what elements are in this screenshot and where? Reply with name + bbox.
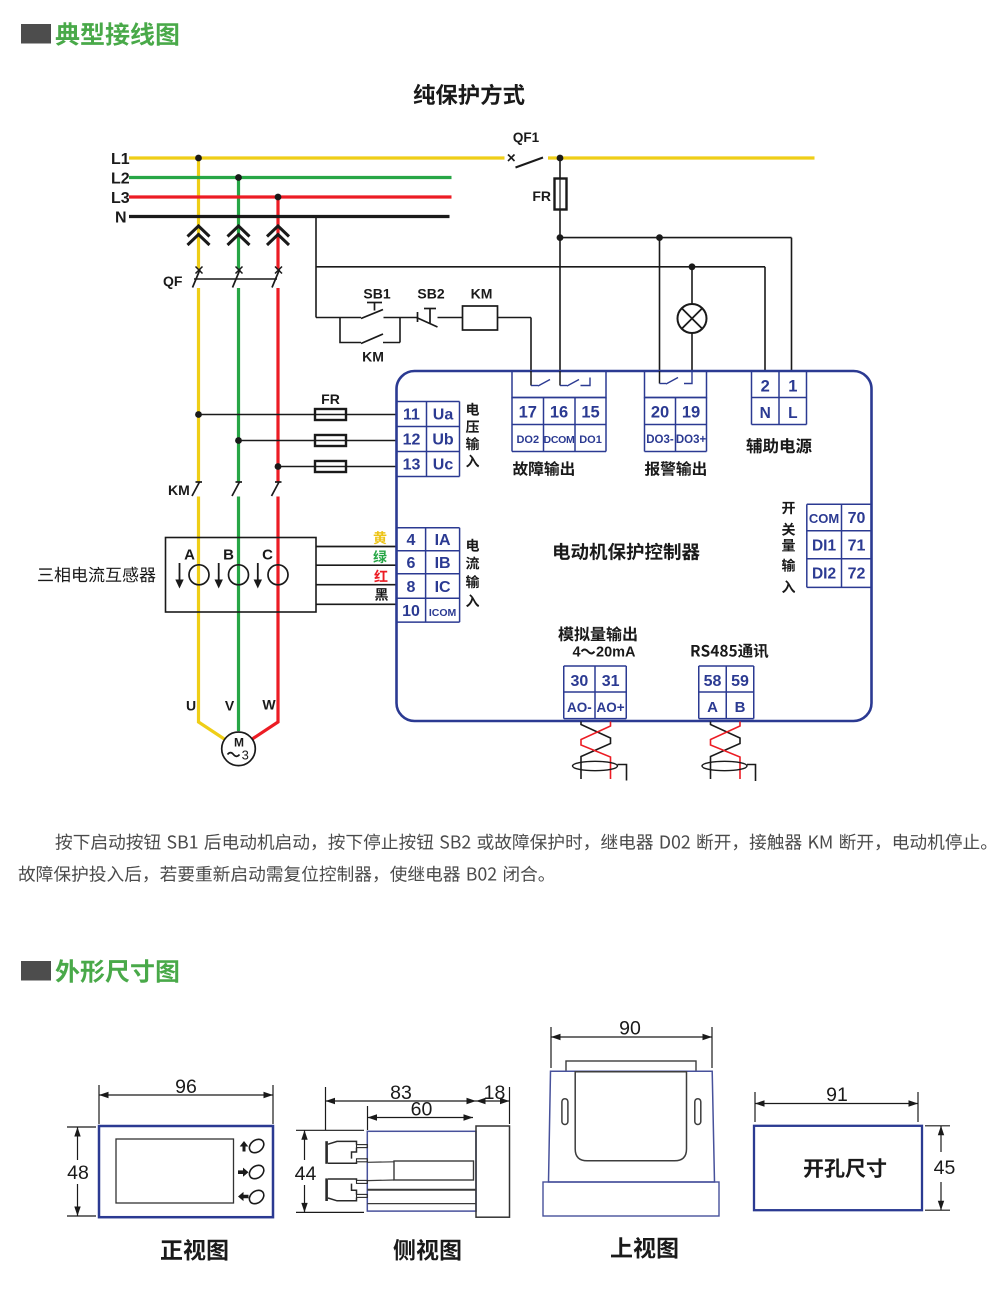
shield AO (573, 761, 627, 780)
svg-text:QF1: QF1 (513, 130, 540, 145)
svg-text:70: 70 (848, 510, 866, 527)
svg-text:KM: KM (362, 349, 384, 365)
svg-text:L2: L2 (111, 171, 130, 188)
side view body lines (367, 1190, 476, 1204)
svg-text:B: B (223, 547, 234, 564)
wire tap 12 (239, 440, 397, 442)
terminal block current 4-10 (397, 528, 460, 622)
terminal 6 IB text (407, 555, 451, 572)
wire FR down (559, 210, 561, 238)
svg-text:16: 16 (550, 404, 568, 422)
wire to terminal 1 (L) (791, 238, 793, 371)
controller box outline (397, 371, 872, 721)
svg-text:1: 1 (788, 378, 797, 396)
svg-text:IC: IC (435, 579, 451, 596)
twisted pair RS485 (711, 722, 741, 780)
svg-text:AO+: AO+ (597, 700, 625, 715)
side view board (367, 1161, 473, 1181)
label 开孔尺寸 (804, 1158, 886, 1178)
wire to fault relay mid (559, 238, 561, 371)
fuse FR element 11 (315, 409, 346, 420)
bus L3 (red) (129, 195, 452, 198)
controller title 电动机保护控制器 (554, 543, 700, 561)
svg-text:17: 17 (519, 404, 537, 422)
cutout dim 45 line (938, 1126, 944, 1210)
svg-text:83: 83 (390, 1082, 412, 1104)
section header square (21, 24, 51, 44)
paragraph line 1 (56, 834, 987, 851)
top view slot right (695, 1099, 701, 1125)
connector chevron 1 (188, 226, 210, 245)
svg-text:DCOM: DCOM (544, 434, 575, 446)
svg-text:96: 96 (175, 1076, 197, 1098)
wire L rail (560, 237, 792, 239)
label 报警输出 (645, 461, 706, 476)
cutout dim 91 witness (755, 1092, 918, 1122)
label 电压输入 (vertical) (466, 403, 480, 468)
front view dim 48 witness (67, 1127, 96, 1216)
wire N rail (316, 266, 765, 268)
svg-text:COM: COM (809, 511, 839, 526)
label 三相电流互感器 (38, 567, 155, 583)
label 故障输出 (513, 461, 574, 476)
wire yellow phase drop (199, 158, 227, 741)
svg-text:B: B (735, 699, 746, 716)
terminal block voltage 11-13 (397, 402, 460, 477)
svg-text:DO3+: DO3+ (676, 434, 707, 446)
svg-text:U: U (186, 698, 196, 714)
svg-text:DO2: DO2 (516, 434, 539, 446)
top view slot left (562, 1099, 568, 1125)
circuit breaker QF (3-pole) (193, 267, 283, 288)
svg-text:19: 19 (682, 404, 700, 422)
terminal 11 Ua text (403, 407, 453, 424)
svg-text:KM: KM (168, 482, 190, 498)
front view button 2 (247, 1162, 267, 1181)
svg-text:10: 10 (402, 603, 420, 620)
svg-text:DO3-: DO3- (646, 434, 674, 446)
junction dot tap 13 (275, 463, 282, 470)
junction dot QF1-FR (557, 155, 564, 162)
svg-text:C: C (262, 547, 273, 564)
wire lamp top (691, 267, 693, 304)
cutout dim 91 line (755, 1100, 918, 1106)
terminal block aux power 2/1 (752, 371, 807, 425)
svg-text:N: N (760, 405, 771, 422)
wire green phase drop (237, 178, 240, 732)
fuse FR top (555, 179, 567, 210)
connector chevron 3 (267, 226, 289, 245)
section header 2 square (21, 961, 51, 981)
junction dot L2 (235, 174, 242, 181)
side view clip bottom (325, 1178, 356, 1201)
svg-text:13: 13 (403, 457, 421, 474)
side view body (367, 1131, 476, 1211)
twisted pair AO (581, 722, 611, 780)
cutout dim 45 witness (925, 1126, 950, 1210)
CT primary circle C (268, 565, 288, 585)
section header text 典型接线图 (56, 22, 178, 46)
svg-text:V: V (225, 698, 235, 714)
side view dim 18 line (476, 1098, 510, 1104)
svg-text:30: 30 (571, 673, 589, 690)
side view dim 83 line (326, 1098, 477, 1104)
terminal 10 ICOM text (402, 603, 456, 620)
side view dim 18 witness (509, 1087, 511, 1124)
wire N drop (315, 217, 317, 318)
top view flange (543, 1182, 719, 1216)
wire red phase drop (250, 197, 278, 741)
junction dot L rail mid (656, 234, 663, 241)
svg-text:8: 8 (407, 579, 416, 596)
wire control rail start (316, 317, 361, 319)
label 侧视图 (393, 1239, 460, 1261)
svg-text:L3: L3 (111, 190, 130, 207)
svg-text:IA: IA (435, 532, 451, 549)
svg-text:QF: QF (163, 273, 183, 289)
junction dot lamp tap (689, 263, 696, 270)
svg-text:AO-: AO- (567, 700, 592, 715)
svg-text:59: 59 (731, 673, 749, 690)
wire tap 13 (278, 466, 397, 468)
front view dim 48 line (74, 1127, 80, 1216)
fault relay contacts (531, 371, 590, 386)
label 电流输入 (vertical) (466, 539, 479, 607)
terminal block RS485 58/59 (699, 666, 754, 719)
svg-text:2: 2 (761, 378, 770, 396)
wire SB1 to SB2 (384, 317, 418, 319)
wire CT IA (316, 546, 397, 548)
svg-text:DO1: DO1 (579, 434, 602, 446)
alarm relay compartment (645, 371, 707, 398)
top view dim 90 line (551, 1034, 712, 1040)
svg-text:SB1: SB1 (363, 286, 390, 302)
svg-text:91: 91 (826, 1084, 848, 1106)
svg-text:KM: KM (471, 286, 493, 302)
svg-text:DI2: DI2 (812, 566, 836, 583)
front view button 3 (247, 1187, 267, 1206)
terminal 8 IC text (407, 579, 451, 596)
wire tap 11 (199, 414, 397, 416)
wire to alarm relay left (659, 238, 661, 371)
wire KM coil to controller (498, 318, 532, 372)
aux contact KM (parallel) (340, 318, 400, 344)
front view dim 96 witness (99, 1085, 273, 1124)
front view display (116, 1139, 234, 1203)
svg-text:ICOM: ICOM (429, 607, 457, 619)
side view dim 44 line (301, 1130, 307, 1212)
CT arrow C (254, 563, 262, 589)
junction dot tap 11 (195, 411, 202, 418)
label 上视图 (611, 1237, 677, 1259)
svg-text:11: 11 (403, 407, 420, 424)
svg-text:DI1: DI1 (812, 538, 837, 555)
CT arrow A (175, 563, 183, 589)
label 模拟量输出 (558, 626, 636, 641)
contactor KM main contacts (192, 482, 282, 496)
svg-text:90: 90 (619, 1018, 641, 1040)
label 开关量输入 (vertical) (782, 502, 795, 593)
wire CT IB (316, 564, 397, 566)
svg-text:60: 60 (411, 1099, 433, 1121)
label 正视图 (161, 1239, 227, 1261)
svg-text:44: 44 (295, 1163, 317, 1185)
wire lamp bottom (691, 333, 693, 371)
svg-text:18: 18 (484, 1082, 506, 1104)
top view dim 90 witness (551, 1027, 712, 1068)
svg-text:W: W (262, 697, 276, 713)
top view inner (575, 1072, 686, 1161)
junction dot L rail left (557, 234, 564, 241)
svg-text:SB2: SB2 (417, 286, 444, 302)
terminal block AO 30/31 (564, 666, 627, 719)
wire color label 黑 (375, 588, 388, 601)
front view arrow right (238, 1168, 249, 1177)
bus L1 (yellow) (129, 156, 815, 159)
svg-text:48: 48 (67, 1162, 89, 1184)
label 4~20mA (572, 645, 636, 661)
svg-text:IB: IB (435, 555, 451, 572)
wire color label 绿 (373, 550, 387, 563)
terminal block alarm 20/19 (645, 398, 707, 452)
label 辅助电源 (746, 438, 811, 454)
svg-text:6: 6 (407, 555, 416, 572)
terminal block DI (807, 504, 872, 587)
svg-text:72: 72 (848, 566, 866, 583)
front view bezel (99, 1126, 273, 1217)
section header text 外形尺寸图 (56, 959, 179, 983)
junction dot L1 (195, 155, 202, 162)
terminal 12 Ub text (403, 432, 454, 449)
svg-text:Ua: Ua (433, 407, 454, 424)
bus L2 (green) (129, 176, 452, 179)
label RS485通讯 (691, 644, 768, 658)
pushbutton SB2 (NC) (417, 309, 438, 328)
side view dim 83 witness (326, 1087, 368, 1130)
svg-text:45: 45 (934, 1157, 956, 1179)
svg-text:58: 58 (704, 673, 722, 690)
CT arrow B (215, 563, 223, 589)
front view arrow left (238, 1192, 249, 1201)
svg-text:3: 3 (242, 748, 249, 763)
front view button 1 (247, 1136, 267, 1155)
paragraph line 2 (19, 866, 544, 883)
svg-text:Ub: Ub (432, 432, 454, 449)
diagram title 纯保护方式 (414, 84, 525, 105)
fault relay compartment (512, 371, 606, 398)
cutout rect (754, 1126, 922, 1210)
svg-text:31: 31 (602, 673, 620, 690)
side view pins bottom (357, 1180, 368, 1197)
side view bezel (476, 1126, 510, 1217)
front view arrow up (240, 1141, 249, 1152)
side view pins top (357, 1145, 368, 1162)
svg-text:L1: L1 (111, 151, 130, 168)
side view clip top (325, 1141, 356, 1164)
CT primary circle A (189, 565, 209, 585)
svg-text:FR: FR (532, 188, 551, 204)
connector chevron 2 (228, 226, 250, 245)
CT box (166, 538, 317, 613)
wire to terminal 2 (N) (764, 267, 766, 371)
front view dim 96 line (99, 1092, 273, 1098)
top view body (549, 1071, 715, 1182)
fuse FR element 13 (315, 461, 346, 472)
wire CT IC (316, 584, 397, 586)
wire CT ICOM (316, 603, 397, 605)
terminal 4 IA text (407, 532, 451, 549)
svg-text:4: 4 (407, 532, 416, 549)
alarm relay contact (660, 371, 693, 384)
wire L1 to FR (559, 158, 561, 178)
motor M (222, 732, 256, 766)
bus N (black) (129, 215, 450, 218)
svg-text:A: A (184, 547, 195, 564)
CT primary circle B (229, 565, 249, 585)
svg-text:L: L (788, 405, 797, 422)
side view dim 60 line (368, 1114, 474, 1120)
pushbutton SB1 (NO) (361, 303, 383, 319)
wire color label 黄 (374, 531, 387, 544)
svg-text:Uc: Uc (433, 457, 454, 474)
contactor coil KM (463, 306, 498, 330)
switch QF1 (508, 155, 543, 168)
shield RS485 (702, 761, 756, 781)
svg-text:20: 20 (651, 404, 669, 422)
svg-text:N: N (115, 210, 127, 227)
junction dot L3 (275, 194, 282, 201)
svg-text:12: 12 (403, 432, 421, 449)
fuse FR element 12 (315, 435, 346, 446)
svg-text:FR: FR (321, 391, 340, 407)
wire color label 红 (374, 570, 387, 583)
wire SB2 to KM coil (438, 317, 463, 319)
top view top rect (566, 1061, 696, 1071)
svg-text:20mA: 20mA (596, 645, 636, 661)
side view dim 44 witness (296, 1130, 364, 1212)
terminal block fault 17/16/15 (512, 398, 606, 452)
junction dot tap 12 (235, 437, 242, 444)
indicator lamp (678, 304, 707, 333)
terminal 13 Uc text (403, 457, 454, 474)
svg-text:A: A (707, 699, 718, 716)
svg-text:4: 4 (572, 645, 580, 661)
svg-text:71: 71 (848, 538, 866, 555)
svg-text:15: 15 (581, 404, 599, 422)
